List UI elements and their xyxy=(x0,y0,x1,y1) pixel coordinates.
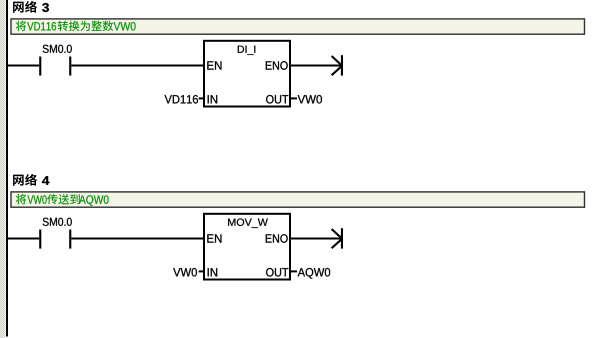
pin IN xyxy=(208,95,218,103)
output operand AQW0 xyxy=(298,268,331,279)
wire xyxy=(7,238,39,240)
input pin tick xyxy=(199,97,204,99)
left power rail xyxy=(6,0,8,337)
pin ENO xyxy=(266,61,288,69)
block title MOV_W xyxy=(228,218,268,227)
rung end arrow xyxy=(332,55,343,75)
contact SM0.0 (normally open) xyxy=(39,230,71,249)
input operand VD116 xyxy=(165,95,198,103)
pin OUT xyxy=(266,268,288,276)
network title 网络 3 xyxy=(13,1,49,13)
pin EN xyxy=(207,234,221,242)
wire xyxy=(290,238,341,240)
contact operand label SM0.0 xyxy=(43,218,72,226)
input pin tick xyxy=(199,270,204,272)
function block DI_I xyxy=(204,41,290,107)
network 3 comment text xyxy=(16,21,136,31)
network 4 comment bar xyxy=(11,192,585,207)
output operand VW0 xyxy=(298,95,322,103)
wire xyxy=(290,65,341,67)
function block MOV_W xyxy=(204,214,290,280)
contact SM0.0 (normally open) xyxy=(39,57,71,76)
output pin tick xyxy=(291,270,298,272)
output pin tick xyxy=(291,97,298,99)
pin EN xyxy=(207,61,221,69)
network title 网络 4 xyxy=(13,174,49,186)
pin IN xyxy=(208,268,218,276)
wire xyxy=(71,65,204,67)
left gutter (dithered margin strip) xyxy=(0,0,6,338)
pin ENO xyxy=(266,234,288,242)
wire xyxy=(71,238,204,240)
wire xyxy=(7,65,39,67)
block title DI_I xyxy=(238,46,255,55)
network 3 comment bar xyxy=(11,19,585,34)
contact operand label SM0.0 xyxy=(43,45,72,53)
rung end arrow xyxy=(332,228,343,248)
pin OUT xyxy=(266,95,288,103)
network 4 comment text xyxy=(16,194,109,206)
input operand VW0 xyxy=(173,268,197,276)
